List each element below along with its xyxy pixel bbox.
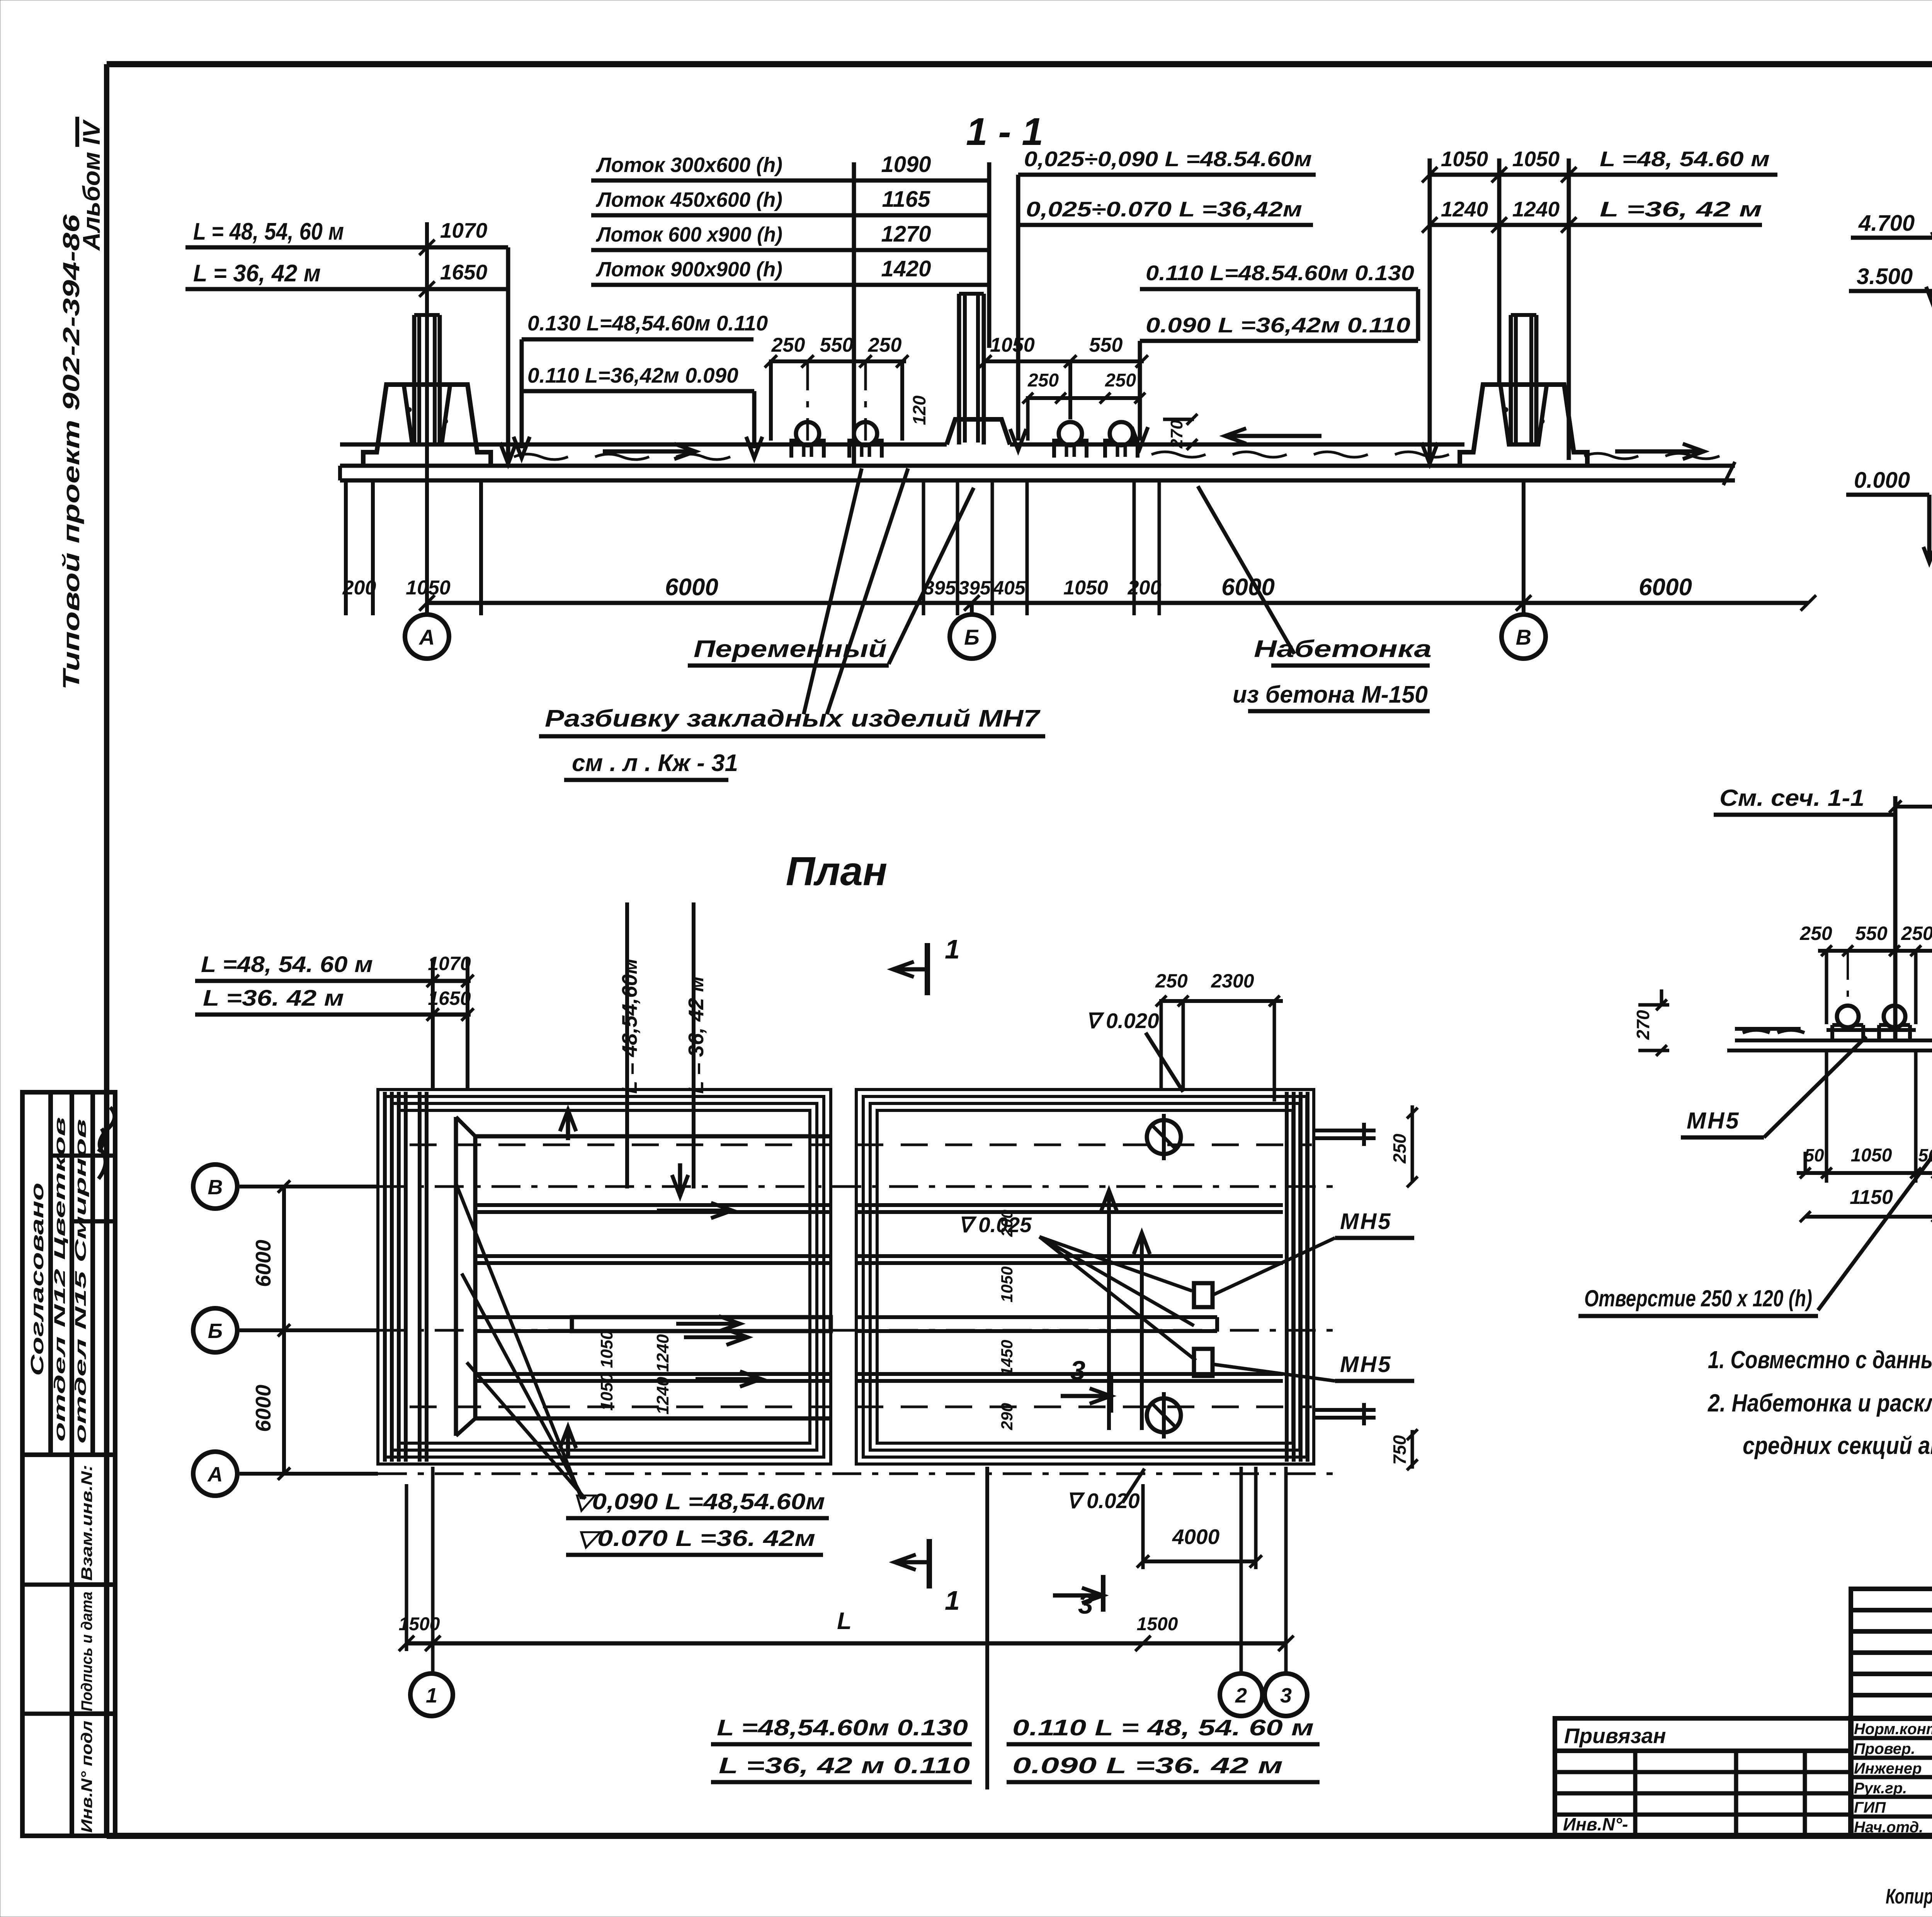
svg-text:План: План bbox=[786, 849, 888, 894]
svg-text:1070: 1070 bbox=[440, 218, 488, 242]
svg-text:МН5: МН5 bbox=[1340, 1352, 1392, 1377]
svg-text:0.110 L=48.54.60м 0.130: 0.110 L=48.54.60м 0.130 bbox=[1146, 261, 1414, 285]
svg-text:1240: 1240 bbox=[1441, 197, 1488, 221]
svg-text:1050: 1050 bbox=[998, 1267, 1016, 1302]
svg-text:1: 1 bbox=[945, 934, 960, 964]
svg-text:250: 250 bbox=[1901, 923, 1932, 944]
svg-text:0.090 L =36. 42 м: 0.090 L =36. 42 м bbox=[1012, 1753, 1283, 1778]
svg-text:отдел N12 Цветков: отдел N12 Цветков bbox=[51, 1117, 68, 1442]
svg-text:средних секций аналогична: средних секций аналогична данной . bbox=[1743, 1432, 1932, 1459]
svg-text:Набетонка: Набетонка bbox=[1254, 636, 1432, 662]
svg-text:Привязан: Привязан bbox=[1564, 1724, 1666, 1748]
svg-text:0.110 L=36,42м 0.090: 0.110 L=36,42м 0.090 bbox=[527, 363, 738, 387]
svg-text:Лоток 900х900 (h): Лоток 900х900 (h) bbox=[595, 258, 782, 281]
svg-text:0.110 L = 48, 54. 60 м: 0.110 L = 48, 54. 60 м bbox=[1012, 1715, 1314, 1740]
svg-text:1050: 1050 bbox=[990, 334, 1035, 356]
svg-text:Провер.: Провер. bbox=[1854, 1740, 1915, 1757]
svg-text:250: 250 bbox=[1027, 370, 1059, 391]
svg-text:L =36. 42 м: L =36. 42 м bbox=[203, 986, 344, 1011]
svg-text:0,025÷0.070 L =36,42м: 0,025÷0.070 L =36,42м bbox=[1026, 197, 1302, 221]
svg-text:L = 36, 42 м: L = 36, 42 м bbox=[193, 260, 321, 287]
svg-text:6000: 6000 bbox=[665, 574, 718, 601]
svg-text:250: 250 bbox=[1155, 970, 1188, 992]
svg-text:из бетона М-150: из бетона М-150 bbox=[1233, 681, 1428, 708]
svg-text:250: 250 bbox=[1105, 370, 1136, 391]
svg-text:4.700: 4.700 bbox=[1858, 211, 1915, 236]
svg-text:L =36, 42 м: L =36, 42 м bbox=[1600, 197, 1762, 221]
svg-text:1. Совместно с данным см .: 1. Совместно с данным см . л.л. Кж - 31.… bbox=[1708, 1346, 1932, 1374]
svg-text:Лоток 300х600 (h): Лоток 300х600 (h) bbox=[595, 153, 782, 177]
svg-text:0.130 L=48,54.60м 0.110: 0.130 L=48,54.60м 0.110 bbox=[527, 311, 768, 335]
svg-text:2300: 2300 bbox=[1211, 970, 1254, 992]
svg-text:1050: 1050 bbox=[1063, 577, 1108, 599]
svg-text:2: 2 bbox=[1235, 1684, 1247, 1707]
svg-text:1450: 1450 bbox=[998, 1340, 1016, 1376]
svg-text:1050: 1050 bbox=[1512, 147, 1560, 171]
svg-text:1240: 1240 bbox=[1512, 197, 1560, 221]
svg-text:А: А bbox=[418, 625, 435, 649]
svg-text:Б: Б bbox=[208, 1319, 223, 1343]
svg-text:0.000: 0.000 bbox=[1854, 468, 1910, 493]
svg-text:1050: 1050 bbox=[406, 577, 451, 599]
svg-text:6000: 6000 bbox=[251, 1239, 275, 1287]
svg-text:405: 405 bbox=[993, 577, 1026, 599]
svg-text:50: 50 bbox=[1804, 1145, 1824, 1165]
svg-text:6000: 6000 bbox=[1221, 574, 1275, 601]
svg-text:Инженер: Инженер bbox=[1854, 1760, 1922, 1777]
svg-text:550: 550 bbox=[820, 334, 854, 356]
svg-text:Подпись и дата: Подпись и дата bbox=[78, 1592, 95, 1711]
svg-text:250: 250 bbox=[868, 334, 902, 356]
svg-text:∇ 0.020: ∇ 0.020 bbox=[1086, 1009, 1159, 1033]
svg-text:3.500: 3.500 bbox=[1857, 264, 1913, 289]
svg-text:отдел N15 Смирнов: отдел N15 Смирнов bbox=[72, 1119, 89, 1444]
svg-text:750: 750 bbox=[1389, 1435, 1410, 1465]
svg-text:ГИП: ГИП bbox=[1854, 1799, 1886, 1816]
svg-text:∇ 0.025: ∇ 0.025 bbox=[958, 1213, 1032, 1237]
svg-text:250: 250 bbox=[1799, 923, 1832, 944]
svg-text:270: 270 bbox=[1167, 420, 1186, 449]
svg-text:1420: 1420 bbox=[881, 256, 931, 281]
svg-text:Переменный: Переменный bbox=[694, 636, 887, 662]
svg-text:▽0.070 L =36. 42м: ▽0.070 L =36. 42м bbox=[576, 1526, 815, 1551]
svg-text:290: 290 bbox=[998, 1403, 1016, 1430]
svg-text:1165: 1165 bbox=[882, 187, 930, 212]
svg-text:1090: 1090 bbox=[881, 152, 931, 177]
svg-text:Нач.отд.: Нач.отд. bbox=[1854, 1819, 1923, 1836]
svg-text:395: 395 bbox=[958, 577, 991, 599]
svg-text:▽0,090 L =48,54.60м: ▽0,090 L =48,54.60м bbox=[572, 1489, 825, 1514]
svg-text:6000: 6000 bbox=[251, 1384, 275, 1432]
svg-text:Типовой проект 902-2-394-86: Типовой проект 902-2-394-86 bbox=[58, 214, 84, 690]
svg-text:МН5: МН5 bbox=[1687, 1108, 1740, 1134]
svg-text:L =36, 42 м 0.110: L =36, 42 м 0.110 bbox=[719, 1753, 970, 1778]
svg-text:Согласовано: Согласовано bbox=[27, 1183, 47, 1376]
svg-text:1150: 1150 bbox=[1850, 1186, 1893, 1209]
svg-text:L =48, 54.60 м: L =48, 54.60 м bbox=[1600, 147, 1770, 171]
svg-text:3: 3 bbox=[1280, 1684, 1292, 1707]
svg-text:250: 250 bbox=[771, 334, 805, 356]
svg-text:L =48,54.60м 0.130: L =48,54.60м 0.130 bbox=[717, 1715, 968, 1740]
svg-text:550: 550 bbox=[1855, 923, 1888, 944]
svg-text:2. Набетонка и раскладка по: 2. Набетонка и раскладка пористых труб д… bbox=[1708, 1389, 1932, 1417]
svg-text:1: 1 bbox=[945, 1585, 960, 1616]
svg-text:250: 250 bbox=[1389, 1134, 1410, 1164]
svg-text:см . л . Кж - 31: см . л . Кж - 31 bbox=[572, 750, 738, 776]
svg-text:6000: 6000 bbox=[1639, 574, 1692, 601]
svg-text:3: 3 bbox=[1070, 1355, 1085, 1386]
svg-text:L =48, 54. 60 м: L =48, 54. 60 м bbox=[201, 952, 373, 977]
svg-text:Инв.N°-: Инв.N°- bbox=[1563, 1814, 1628, 1834]
svg-text:Норм.контр: Норм.контр bbox=[1854, 1721, 1932, 1738]
svg-text:1050: 1050 bbox=[1441, 147, 1488, 171]
svg-text:Отверстие 250 х 120 (h): Отверстие 250 х 120 (h) bbox=[1584, 1285, 1812, 1311]
svg-text:Копировал: Синицына: Копировал: Синицына bbox=[1886, 1884, 1932, 1908]
svg-text:Лоток 600 х900 (h): Лоток 600 х900 (h) bbox=[595, 223, 782, 246]
svg-text:550: 550 bbox=[1089, 334, 1123, 356]
svg-text:Разбивку закладных изделий: Разбивку закладных изделий МН7 bbox=[545, 705, 1041, 732]
svg-text:В: В bbox=[208, 1176, 223, 1199]
svg-text:L = 36, 42 м: L = 36, 42 м bbox=[684, 976, 708, 1094]
svg-text:L = 48, 54, 60 м: L = 48, 54, 60 м bbox=[193, 218, 344, 245]
svg-text:120: 120 bbox=[909, 395, 929, 425]
svg-text:Инв.N° подл: Инв.N° подл bbox=[78, 1721, 95, 1833]
svg-text:Лоток 450х600 (h): Лоток 450х600 (h) bbox=[595, 188, 782, 211]
svg-text:В: В bbox=[1516, 625, 1531, 649]
svg-text:1050: 1050 bbox=[1851, 1145, 1892, 1166]
svg-text:1650: 1650 bbox=[440, 260, 488, 284]
svg-text:МН5: МН5 bbox=[1340, 1209, 1392, 1234]
svg-text:Б: Б bbox=[964, 625, 980, 649]
svg-text:См. сеч. 1-1: См. сеч. 1-1 bbox=[1719, 785, 1864, 811]
svg-text:Рук.гр.: Рук.гр. bbox=[1854, 1780, 1907, 1797]
svg-text:1500: 1500 bbox=[1137, 1614, 1178, 1634]
svg-text:270: 270 bbox=[1633, 1010, 1653, 1040]
svg-text:4000: 4000 bbox=[1172, 1525, 1220, 1549]
svg-text:0.090 L =36,42м 0.110: 0.090 L =36,42м 0.110 bbox=[1146, 313, 1410, 337]
svg-text:А: А bbox=[207, 1463, 223, 1486]
svg-text:Взам.инв.N:: Взам.инв.N: bbox=[78, 1465, 95, 1581]
svg-text:1270: 1270 bbox=[881, 221, 931, 247]
svg-text:1: 1 bbox=[426, 1684, 437, 1707]
svg-text:0,025÷0,090 L =48.54.60м: 0,025÷0,090 L =48.54.60м bbox=[1024, 147, 1312, 171]
svg-text:1050 1050: 1050 1050 bbox=[597, 1330, 616, 1411]
svg-text:L = 48,54,60м: L = 48,54,60м bbox=[617, 958, 641, 1094]
svg-text:L: L bbox=[837, 1608, 852, 1634]
